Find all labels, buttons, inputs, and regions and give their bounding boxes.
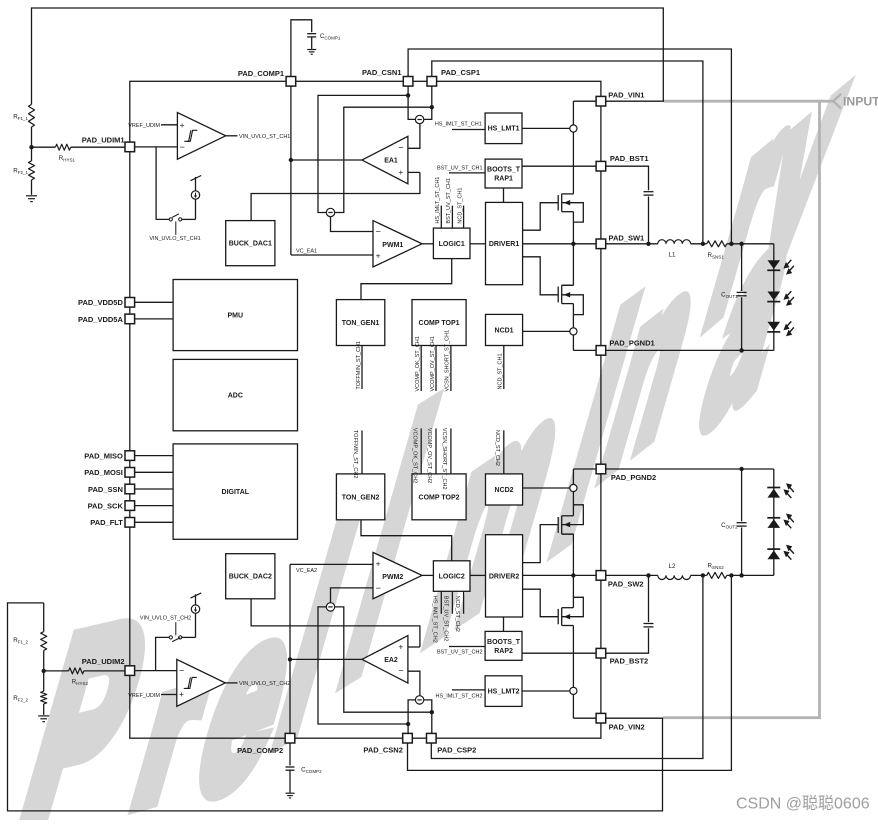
svg-text:NCD2: NCD2 [495, 487, 514, 494]
svg-text:VCOMP_OV_ST_CH2: VCOMP_OV_ST_CH2 [426, 428, 432, 483]
svg-text:RAP2: RAP2 [494, 648, 513, 655]
svg-text:VC_EA1: VC_EA1 [296, 249, 317, 255]
svg-text:PAD_VDD5D: PAD_VDD5D [78, 298, 123, 307]
svg-text:PAD_SW2: PAD_SW2 [608, 580, 644, 589]
svg-text:DRIVER1: DRIVER1 [489, 241, 519, 248]
svg-text:NCD_ST_CH1: NCD_ST_CH1 [498, 353, 504, 389]
svg-text:+: + [376, 559, 381, 569]
svg-text:PAD_VIN2: PAD_VIN2 [609, 723, 645, 732]
svg-text:PAD_FLT: PAD_FLT [90, 518, 123, 527]
svg-text:VCOMP_OK_ST_CH1: VCOMP_OK_ST_CH1 [415, 336, 421, 391]
svg-text:VC_EA2: VC_EA2 [296, 568, 317, 574]
svg-text:HS_IMLT_ST_CH2: HS_IMLT_ST_CH2 [432, 596, 438, 643]
svg-text:PAD_MISO: PAD_MISO [84, 452, 123, 461]
svg-text:+: + [398, 642, 403, 652]
svg-text:HS_LMT2: HS_LMT2 [488, 689, 520, 696]
svg-text:COMP TOP1: COMP TOP1 [419, 320, 460, 327]
svg-text:−: − [376, 583, 381, 593]
svg-text:DRIVER2: DRIVER2 [489, 573, 519, 580]
svg-text:LOGIC2: LOGIC2 [439, 573, 465, 580]
svg-text:HS_IMLT_ST_CH2: HS_IMLT_ST_CH2 [436, 694, 483, 700]
svg-text:−: − [398, 143, 403, 153]
svg-text:LOGIC1: LOGIC1 [439, 241, 465, 248]
svg-text:PAD_CSP1: PAD_CSP1 [441, 68, 480, 77]
svg-text:TON_GEN2: TON_GEN2 [342, 494, 380, 501]
svg-text:HS_IMLT_ST_CH1: HS_IMLT_ST_CH1 [435, 177, 441, 224]
svg-text:PWM1: PWM1 [382, 242, 403, 249]
svg-text:BST_UV_ST_CH2: BST_UV_ST_CH2 [443, 596, 449, 642]
svg-text:PAD_VDD5A: PAD_VDD5A [78, 315, 123, 324]
svg-text:−: − [179, 666, 184, 676]
svg-text:CSDN @聪聪0606: CSDN @聪聪0606 [736, 795, 870, 813]
svg-text:PMU: PMU [228, 312, 244, 319]
svg-text:VREF_UDIM: VREF_UDIM [128, 693, 160, 699]
svg-text:PAD_SCK: PAD_SCK [88, 502, 124, 511]
svg-text:VCOMP_OV_ST_CH1: VCOMP_OV_ST_CH1 [430, 336, 436, 391]
svg-text:L2: L2 [669, 563, 676, 570]
svg-text:ADC: ADC [228, 393, 243, 400]
svg-text:+: + [376, 251, 381, 261]
svg-text:PAD_UDIM1: PAD_UDIM1 [82, 135, 125, 144]
svg-text:BOOTS_T: BOOTS_T [487, 639, 521, 646]
svg-text:BOOTS_T: BOOTS_T [487, 166, 521, 173]
svg-text:EA2: EA2 [384, 657, 398, 664]
svg-text:PAD_BST2: PAD_BST2 [610, 657, 649, 666]
svg-text:NCD_ST_CH2: NCD_ST_CH2 [494, 430, 500, 466]
svg-text:PAD_UDIM2: PAD_UDIM2 [82, 657, 125, 666]
svg-text:VCOMP_OK_ST_CH2: VCOMP_OK_ST_CH2 [411, 428, 417, 483]
svg-text:PAD_SSN: PAD_SSN [88, 485, 123, 494]
svg-text:PAD_MOSI: PAD_MOSI [84, 468, 123, 477]
svg-text:+: + [179, 689, 184, 699]
svg-text:L1: L1 [669, 251, 676, 258]
svg-text:COMP TOP2: COMP TOP2 [419, 494, 460, 501]
svg-text:VCSN_SHORT_ST_CH2: VCSN_SHORT_ST_CH2 [441, 428, 447, 490]
svg-text:PAD_PGND1: PAD_PGND1 [609, 339, 654, 348]
svg-text:HS_IMLT_ST_CH1: HS_IMLT_ST_CH1 [435, 121, 482, 127]
svg-text:+: + [180, 120, 185, 130]
svg-text:VIN_UVLO_ST_CH1: VIN_UVLO_ST_CH1 [239, 134, 290, 140]
svg-text:−: − [398, 665, 403, 675]
svg-text:HS_LMT1: HS_LMT1 [488, 126, 520, 133]
svg-text:EA1: EA1 [384, 158, 398, 165]
svg-text:PAD_BST1: PAD_BST1 [610, 154, 649, 163]
svg-text:VIN_UVLO_ST_CH1: VIN_UVLO_ST_CH1 [149, 236, 200, 242]
svg-text:VREF_UDIM: VREF_UDIM [128, 123, 160, 129]
svg-text:PAD_SW1: PAD_SW1 [609, 234, 645, 243]
svg-text:BST_UV_ST_CH1: BST_UV_ST_CH1 [437, 165, 483, 171]
svg-text:VIN_UVLO_ST_CH2: VIN_UVLO_ST_CH2 [239, 681, 290, 687]
svg-text:TOFFMIN_ST_CH2: TOFFMIN_ST_CH2 [352, 430, 358, 479]
svg-text:BST_UV_ST_CH1: BST_UV_ST_CH1 [446, 178, 452, 224]
svg-text:PAD_PGND2: PAD_PGND2 [611, 473, 656, 482]
svg-text:−: − [376, 226, 381, 236]
svg-text:PAD_COMP2: PAD_COMP2 [237, 746, 283, 755]
svg-text:TON_GEN1: TON_GEN1 [342, 320, 380, 327]
svg-text:INPUT: INPUT [843, 95, 878, 109]
svg-text:PAD_CSP2: PAD_CSP2 [437, 745, 476, 754]
svg-text:−: − [180, 142, 185, 152]
svg-text:NCD_ST_CH1: NCD_ST_CH1 [457, 188, 463, 224]
svg-text:DIGITAL: DIGITAL [222, 489, 250, 496]
svg-text:PAD_CSN2: PAD_CSN2 [363, 745, 402, 754]
svg-text:VCSN_SHORT_ST_CH1: VCSN_SHORT_ST_CH1 [445, 330, 451, 392]
svg-text:PAD_COMP1: PAD_COMP1 [238, 69, 284, 78]
svg-text:PAD_CSN1: PAD_CSN1 [362, 68, 401, 77]
svg-text:TOFFMIN_ST_CH1: TOFFMIN_ST_CH1 [356, 341, 362, 390]
svg-text:RAP1: RAP1 [494, 175, 513, 182]
svg-text:PWM2: PWM2 [382, 574, 403, 581]
svg-text:VIN_UVLO_ST_CH2: VIN_UVLO_ST_CH2 [140, 615, 191, 621]
svg-text:+: + [398, 167, 403, 177]
svg-text:PAD_VIN1: PAD_VIN1 [608, 90, 644, 99]
svg-text:BST_UV_ST_CH2: BST_UV_ST_CH2 [437, 650, 483, 656]
svg-text:BUCK_DAC2: BUCK_DAC2 [229, 574, 272, 581]
svg-text:NCD_ST_CH2: NCD_ST_CH2 [454, 596, 460, 632]
svg-text:NCD1: NCD1 [495, 327, 514, 334]
svg-text:BUCK_DAC1: BUCK_DAC1 [229, 241, 272, 248]
